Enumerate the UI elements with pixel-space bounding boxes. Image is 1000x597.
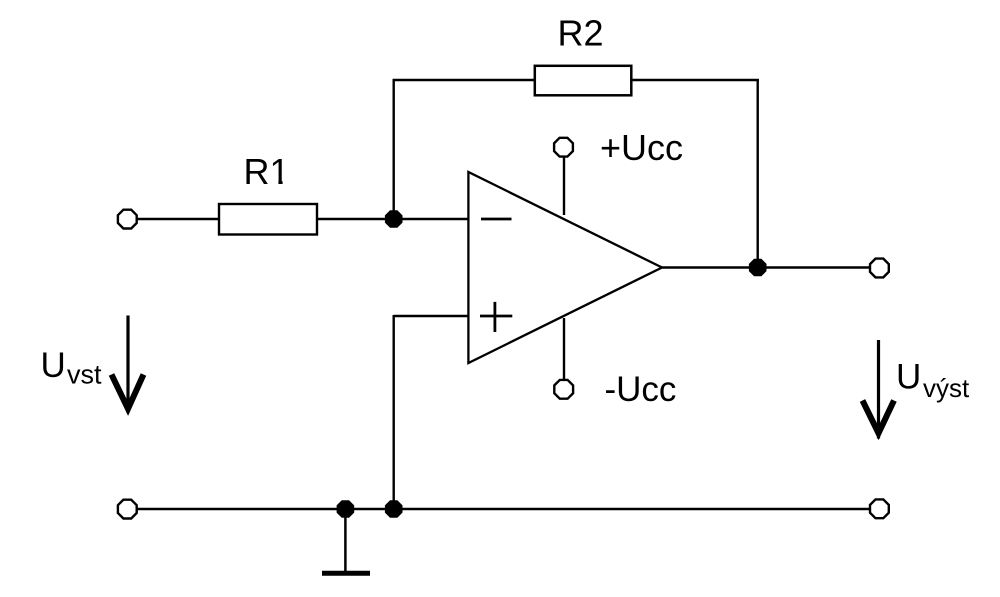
output voltage arrow <box>877 340 880 439</box>
-Ucc supply wire <box>563 318 565 380</box>
mask for R1 digit foot <box>272 180 279 184</box>
ground stem wire <box>344 509 347 571</box>
ground bar <box>322 571 370 576</box>
node B junction dot <box>386 501 401 516</box>
bottom-left terminal (octagon) <box>118 500 137 519</box>
wire right rail down to output <box>757 79 759 268</box>
+Ucc terminal (octagon) <box>554 138 573 157</box>
output node junction dot <box>750 260 765 275</box>
resistor R1 <box>219 204 317 235</box>
wire node A up to feedback rail <box>393 79 395 219</box>
svg-text:R2: R2 <box>558 13 604 54</box>
ground node junction dot <box>338 501 353 516</box>
op-amp minus sign <box>481 218 512 221</box>
wire input terminal to R1 <box>137 218 220 220</box>
op-amp U1 triangle <box>468 172 662 363</box>
wire op-amp output <box>661 266 869 268</box>
bottom ground rail wire <box>137 508 870 510</box>
resistor R2 <box>535 66 632 96</box>
wire non-inverting input horizontal <box>394 315 468 317</box>
svg-text:R1: R1 <box>244 151 290 192</box>
wire non-inverting input down to ground rail <box>393 315 395 509</box>
input terminal (octagon) <box>118 210 137 229</box>
wire R1 to inverting input <box>317 218 468 220</box>
bottom-right terminal (octagon) <box>870 499 889 518</box>
wire top rail to R2 <box>393 79 536 81</box>
op-amp plus sign <box>480 315 512 318</box>
svg-text:vst: vst <box>67 360 102 390</box>
svg-text:-Ucc: -Ucc <box>605 370 677 409</box>
+Ucc supply wire <box>563 156 565 215</box>
svg-text:+Ucc: +Ucc <box>600 127 683 168</box>
svg-text:U: U <box>41 346 66 385</box>
svg-text:U: U <box>896 358 921 397</box>
-Ucc terminal (octagon) <box>554 380 573 399</box>
node A junction dot <box>386 211 401 226</box>
svg-text:výst: výst <box>923 373 970 403</box>
input voltage arrow <box>126 316 129 414</box>
wire R2 to right rail <box>630 79 759 81</box>
output terminal (octagon) <box>870 259 889 278</box>
